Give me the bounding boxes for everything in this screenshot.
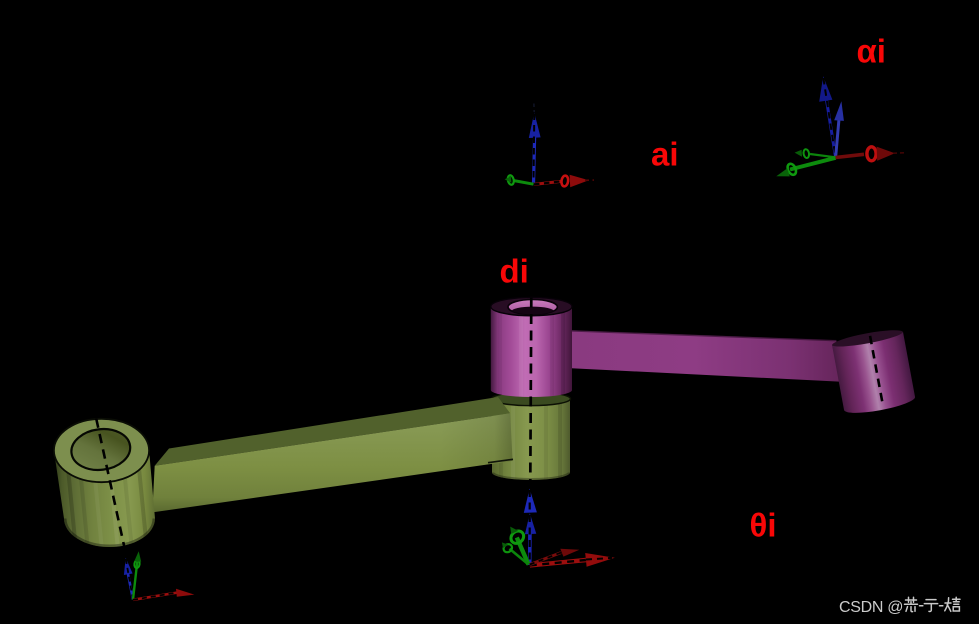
F2 x-axis i (green thick): [790, 158, 836, 170]
frames and labels inserted below: [124, 76, 906, 600]
F4 z-axis (blue, dashed, double arrowhead): [528, 534, 532, 565]
F2 x-axis i-1 (green thin): [810, 154, 836, 157]
svg-text:ai: ai: [651, 135, 679, 172]
svg-text:di: di: [500, 252, 529, 289]
F4 y-axis i (green thick, ringed): [517, 538, 529, 565]
svg-text:θi: θi: [750, 506, 777, 543]
link2 joint cylinder (green, under purple): [492, 392, 571, 482]
F1 x-axis (red, dashed): [534, 181, 561, 184]
arm end shading: [440, 413, 513, 470]
F1 z-axis (blue, dashed): [534, 137, 535, 184]
joint axis i+1 (dashed): [870, 336, 883, 405]
F3 z-axis (blue, dashed): [128, 573, 133, 600]
F1 y-axis (green): [514, 181, 534, 185]
F3 y-axis (green): [133, 562, 137, 600]
hyphen: [920, 605, 923, 607]
glyph huang1: [905, 597, 918, 611]
link2 joint cylinder bore: [508, 300, 557, 315]
F2 z-axis i (medium blue): [836, 119, 839, 158]
watermark CSDN: [839, 597, 960, 616]
link2 arm (purple): [571, 330, 844, 382]
F2 common x-axis (red): [836, 154, 864, 157]
link1 base cylinder bore: [69, 426, 133, 473]
F3 x-axis (red, dashed): [133, 593, 177, 600]
link2 joint cylinder (purple) body: [491, 297, 572, 397]
frame F3 (base frame, bottom-left): [124, 551, 194, 600]
F4 x-axis i (red, dashed): [530, 560, 586, 565]
hyphen: [940, 605, 943, 607]
glyph yu2: [924, 600, 937, 612]
joint axis i (dashed, through both cylinders): [530, 298, 531, 481]
F4 x-axis i-1 (red thin, dashed): [530, 553, 561, 565]
seam arm/cylinder: [488, 459, 513, 462]
frame F2 (link2 distal frame, near label alpha-i): [776, 76, 906, 176]
svg-text:CSDN @: CSDN @: [839, 599, 903, 616]
F2 z-axis i-1 (dark blue, dashed): [827, 100, 836, 158]
link1 base cylinder top face: [54, 419, 149, 482]
link2 end cylinder (purple, tilted): [831, 327, 916, 417]
joint axis i-1 (dashed): [96, 419, 126, 556]
frame F1 (link1 distal axis frame, near label ai): [505, 104, 594, 188]
link1 arm (green) front face: [152, 413, 512, 512]
glyph xi1: [945, 597, 960, 611]
F4 y-axis i-1 (green thin, ringed): [510, 549, 529, 565]
svg-text:αi: αi: [857, 33, 886, 70]
link1 arm (green) top face: [155, 397, 511, 466]
frame F4 (joint i frame, below green cylinder, near theta-i): [502, 489, 615, 567]
